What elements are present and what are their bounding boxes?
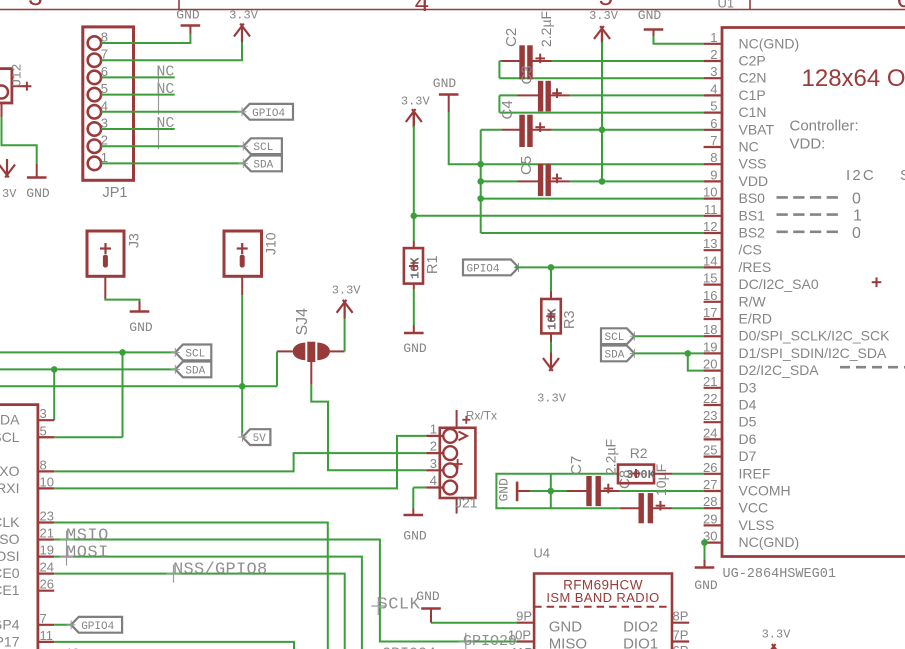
svg-text:MOSI: MOSI xyxy=(0,548,20,564)
svg-text:23: 23 xyxy=(703,408,717,423)
wire GND to rail xyxy=(449,112,481,164)
ground symbol (C7 cluster, rotated) xyxy=(516,482,519,502)
U1 pin 3 (C2N) xyxy=(704,77,722,79)
svg-text:NSS/GPIO8: NSS/GPIO8 xyxy=(173,560,268,579)
svg-text:GND: GND xyxy=(433,76,457,91)
svg-text:VDD: VDD xyxy=(739,173,769,189)
wire R2 to IREF xyxy=(672,473,704,475)
svg-text:2: 2 xyxy=(430,439,437,454)
svg-text:10: 10 xyxy=(703,185,717,200)
svg-text:VLSS: VLSS xyxy=(739,517,775,533)
svg-text:J10: J10 xyxy=(263,232,279,255)
net label MOSI xyxy=(66,548,68,566)
svg-text:2: 2 xyxy=(710,47,717,62)
wire SCL rail xyxy=(0,351,175,353)
svg-text:CE0: CE0 xyxy=(0,565,20,581)
svg-text:14: 14 xyxy=(703,253,717,268)
RPi pin 19 (MOSI) xyxy=(38,555,54,557)
RPi pin 3 (SDA) xyxy=(38,419,54,421)
wire C3 to C1P xyxy=(570,94,704,96)
RPi pin 5 (SCL) xyxy=(38,436,54,438)
U1 pin 26 (IREF) xyxy=(704,473,722,475)
connector J21 xyxy=(440,428,476,498)
wire RPi pin23 SCLK xyxy=(54,523,328,649)
svg-text:DIO1: DIO1 xyxy=(623,636,658,649)
wire JP1 pin8 to GND xyxy=(101,34,190,44)
svg-text:3: 3 xyxy=(430,456,437,471)
wire JP1 pin7 to 3.3V xyxy=(101,42,242,60)
wire C7 to VCOMH xyxy=(620,490,704,492)
U1 pin 12 (BS2) xyxy=(704,232,722,234)
wire 5V rail xyxy=(0,385,277,387)
U1 pin 25 (D7) xyxy=(704,456,722,458)
wire U4 9P to GND xyxy=(431,622,517,624)
U1 pin 13 (/CS) xyxy=(704,249,722,251)
junction D1/D2 xyxy=(685,350,692,357)
svg-text:GPIO4: GPIO4 xyxy=(252,108,285,120)
U1 pin 6 (VBAT) xyxy=(704,129,722,131)
svg-text:MISO: MISO xyxy=(549,636,587,649)
no-connect NC (JP1 pin3) xyxy=(158,117,160,149)
J21 pin 3 xyxy=(443,463,457,477)
svg-text:C7: C7 xyxy=(568,456,585,475)
svg-text:D5: D5 xyxy=(739,414,757,430)
net tag GPIO4 (middle) xyxy=(463,260,519,276)
net label MSIO xyxy=(66,531,68,549)
svg-text:R3: R3 xyxy=(562,310,578,329)
svg-text:DC/I2C_SA0: DC/I2C_SA0 xyxy=(739,276,819,292)
svg-text:0: 0 xyxy=(852,225,861,242)
svg-text:29: 29 xyxy=(703,511,717,526)
wire RPi pin8 TXO to J21 pin2 xyxy=(54,453,426,471)
ground symbol (U1 pin30) xyxy=(704,560,706,568)
net tag SDA (left) xyxy=(175,362,211,378)
svg-text:C5: C5 xyxy=(518,156,535,175)
svg-text:VDD:: VDD: xyxy=(790,136,826,153)
svg-text:3: 3 xyxy=(710,64,717,79)
svg-text:GPIO4: GPIO4 xyxy=(467,263,500,275)
svg-text:NC(GND): NC(GND) xyxy=(739,35,800,51)
svg-text:/CS: /CS xyxy=(739,242,762,258)
svg-text:C2P: C2P xyxy=(739,53,766,69)
svg-text:1: 1 xyxy=(430,421,437,436)
net label GPIO29 xyxy=(465,633,467,649)
svg-text:26: 26 xyxy=(703,460,717,475)
svg-text:CE1: CE1 xyxy=(0,582,20,598)
net tag GPIO4 (JP1) xyxy=(242,104,293,120)
capacitor C7 xyxy=(551,490,567,492)
U4 pin 8P (DIO2) xyxy=(672,622,689,624)
wire RPi pin21 MISO to RFM 10P xyxy=(54,540,517,642)
svg-text:6P: 6P xyxy=(673,643,689,649)
svg-text:BS2: BS2 xyxy=(739,225,766,241)
svg-text:SPI: SPI xyxy=(900,167,905,184)
RPi pin 10 (RXI) xyxy=(38,487,54,489)
U1 pin 2 (C2P) xyxy=(704,60,722,62)
U1 pin 14 (/RES) xyxy=(704,266,722,268)
U1 pin 17 (E/RD) xyxy=(704,318,722,320)
JP1 pin 2 xyxy=(88,140,101,153)
svg-text:3.3V: 3.3V xyxy=(537,392,567,406)
svg-text:12: 12 xyxy=(703,219,717,234)
supply 3.3V (cap bank) xyxy=(601,28,603,45)
net tag SDA (at U1) xyxy=(601,346,634,362)
svg-text:VCC: VCC xyxy=(739,500,769,516)
plus mark (DC/I2C_SA0 row) xyxy=(872,281,882,283)
wire J21 pin4 to GND xyxy=(413,487,426,489)
wire U1 pin30 to GND xyxy=(704,543,706,560)
capacitor C3 xyxy=(499,94,517,96)
svg-text:GPIO29: GPIO29 xyxy=(463,633,517,649)
svg-text:26: 26 xyxy=(40,577,54,592)
resistor R1 xyxy=(413,241,415,248)
svg-text:19: 19 xyxy=(40,543,54,558)
svg-text:8P: 8P xyxy=(673,609,689,624)
svg-text:15: 15 xyxy=(703,271,717,286)
svg-text:SDA: SDA xyxy=(0,412,20,428)
wire 3.3V to R1/BS1 xyxy=(413,111,415,126)
wire GND rail vertical xyxy=(480,130,482,233)
wire SCL to D0 xyxy=(634,335,703,337)
svg-text:10K: 10K xyxy=(546,308,560,330)
svg-text:GND: GND xyxy=(497,478,512,502)
svg-text:C2N: C2N xyxy=(739,70,767,86)
svg-text:Rx/Tx: Rx/Tx xyxy=(466,409,497,423)
ground symbol (U12) xyxy=(36,164,38,178)
RPi GPIO header outline (cut) xyxy=(0,405,38,649)
junction 5V/J10 xyxy=(239,383,246,390)
svg-text:5V: 5V xyxy=(253,433,267,445)
radio module U4 outline xyxy=(534,574,672,649)
svg-text:JP1: JP1 xyxy=(103,185,128,201)
wire C4 to VBAT xyxy=(552,129,704,131)
net tag SCL (left) xyxy=(175,345,211,361)
svg-text:D1/SPI_SDIN/I2C_SDA: D1/SPI_SDIN/I2C_SDA xyxy=(739,345,887,361)
svg-text:D7: D7 xyxy=(739,448,757,464)
ground symbol (J21) xyxy=(412,509,414,516)
svg-text:NC: NC xyxy=(739,139,759,155)
svg-text:4: 4 xyxy=(430,473,437,488)
RPi pin 23 (SCLK) xyxy=(38,521,54,523)
wire SCL to RPi pin5 xyxy=(122,352,124,437)
wire SJ4 left pad to 5V net xyxy=(277,350,293,352)
wire RPi pin5 SCL xyxy=(54,436,122,438)
U1 pin 19 (D1/SPI_SDIN/I2C_SDA) xyxy=(704,352,722,354)
wire SJ4 bottom pad to J21 pin3 xyxy=(310,362,312,385)
wire J3 to GND xyxy=(104,276,106,298)
svg-text:19: 19 xyxy=(703,339,717,354)
U1 pin 10 (BS0) xyxy=(704,198,722,200)
net label SCLK xyxy=(377,597,379,615)
U1 pin 5 (C1N) xyxy=(704,111,722,113)
svg-text:GND: GND xyxy=(176,7,200,22)
svg-text:16: 16 xyxy=(703,288,717,303)
svg-text:NC(GND): NC(GND) xyxy=(739,534,800,550)
svg-text:R/W: R/W xyxy=(739,293,767,309)
net tag GPIO4 (RPi pin7) xyxy=(71,617,122,633)
U1 pin 30 (NC(GND)) xyxy=(704,541,722,543)
U1 pin 9 (VDD) xyxy=(704,180,722,182)
svg-text:U4: U4 xyxy=(533,546,550,561)
svg-text:GND: GND xyxy=(403,529,427,544)
supply 3.3V (R1) xyxy=(413,111,415,128)
wire RPi pin19 MOSI xyxy=(54,557,362,649)
connector J3 xyxy=(87,231,124,276)
svg-text:22: 22 xyxy=(703,391,717,406)
RPi pin 24 (CE0) xyxy=(38,573,54,575)
U1 pin 15 (DC/I2C_SA0) xyxy=(704,284,722,286)
svg-text:GPIO4: GPIO4 xyxy=(81,621,114,633)
wire VSS to GND rail xyxy=(481,163,704,165)
svg-text:Controller:: Controller: xyxy=(790,118,859,135)
svg-text:SCL: SCL xyxy=(185,348,205,360)
wire R1 to GND xyxy=(413,289,415,325)
wire D1 to D2 xyxy=(688,353,704,370)
U4 pin 9P (GND) xyxy=(517,622,534,624)
capacitor C5 xyxy=(481,180,518,182)
wire 3.3V vertical xyxy=(601,28,603,42)
wire RPi pin10 RXI to J21 pin1 xyxy=(54,436,426,489)
svg-text:20: 20 xyxy=(703,357,717,372)
svg-text:8: 8 xyxy=(40,457,47,472)
D2 row dashes xyxy=(840,366,905,369)
junction 3.3V VBAT xyxy=(599,127,606,134)
JP1 pin 4 xyxy=(88,105,101,118)
junction SDA xyxy=(51,366,58,373)
wire RPi pin24 CE0/NSS xyxy=(54,574,345,649)
svg-text:11: 11 xyxy=(704,202,718,217)
svg-text:R2: R2 xyxy=(630,445,648,461)
junction rail BS0 xyxy=(477,195,484,202)
wire JP1 pin3 xyxy=(101,128,175,130)
svg-text:C4: C4 xyxy=(499,100,516,119)
svg-text:3: 3 xyxy=(40,406,47,421)
net label NSS/GPIO8 xyxy=(173,565,175,583)
svg-text:3.3V: 3.3V xyxy=(0,187,17,201)
svg-text:7: 7 xyxy=(710,133,717,148)
svg-text:SDA: SDA xyxy=(605,349,625,361)
wire JP1 pin2 to SCL xyxy=(101,145,243,147)
svg-text:4: 4 xyxy=(414,0,430,19)
svg-text:GP17: GP17 xyxy=(0,633,20,649)
wire R3 to 3.3V xyxy=(550,342,552,357)
junction U1 pin30 xyxy=(701,539,708,546)
svg-text:11: 11 xyxy=(40,628,54,643)
svg-text:9: 9 xyxy=(710,167,717,182)
supply 3.3V (R3, pointing down) xyxy=(550,353,552,370)
svg-text:DIO2: DIO2 xyxy=(623,619,658,636)
svg-text:17: 17 xyxy=(703,305,717,320)
svg-text:D6: D6 xyxy=(739,431,757,447)
svg-text:8: 8 xyxy=(710,150,717,165)
wire C1N loop xyxy=(498,95,500,112)
svg-text:VSS: VSS xyxy=(739,156,767,172)
svg-text:3.3V: 3.3V xyxy=(332,284,362,298)
svg-text:13: 13 xyxy=(703,236,717,251)
svg-text:J21: J21 xyxy=(455,495,478,511)
svg-text:SCLK: SCLK xyxy=(378,596,421,615)
svg-text:GND: GND xyxy=(638,8,662,23)
svg-text:UG-2864HSWEG01: UG-2864HSWEG01 xyxy=(723,567,836,582)
solder jumper SJ4 xyxy=(293,343,306,361)
svg-text:3: 3 xyxy=(28,0,44,13)
wire C8 to VCC xyxy=(672,507,704,509)
wire BS2 to GND rail xyxy=(481,232,704,234)
svg-text:SCLK: SCLK xyxy=(0,514,20,530)
junction SCL xyxy=(119,349,126,356)
svg-text:J3: J3 xyxy=(126,233,142,248)
U4 pin 10P (MISO) xyxy=(517,640,534,642)
J21 pin1 arrow marker xyxy=(459,432,468,441)
JP1 pin 7 xyxy=(88,54,101,67)
JP1 pin 6 xyxy=(88,71,101,84)
supply 3.3V arrow (left edge, pointing down) xyxy=(6,159,8,176)
svg-text:1: 1 xyxy=(710,30,717,45)
wire U1 pin1 to GND xyxy=(654,36,704,44)
svg-text:24: 24 xyxy=(40,560,54,575)
wire GPIO4 to /RES xyxy=(515,266,704,268)
connector JP1 xyxy=(83,27,134,180)
svg-text:SCL: SCL xyxy=(605,332,625,344)
wire C2 to C2P xyxy=(552,60,704,62)
junction GPIO4/R3 xyxy=(548,264,555,271)
svg-text:10: 10 xyxy=(40,474,54,489)
svg-text:3.3V: 3.3V xyxy=(229,8,259,22)
junction rail VSS xyxy=(477,161,484,168)
U1 pin 28 (VCC) xyxy=(704,507,722,509)
JP1 pin 8 xyxy=(88,36,101,49)
wire J10 to 5V xyxy=(241,276,243,295)
svg-text:23: 23 xyxy=(40,509,54,524)
wire JP1 pin4 to GPIO4 xyxy=(101,111,242,113)
resistor R2 xyxy=(618,465,654,484)
svg-text:3.3V: 3.3V xyxy=(762,628,792,642)
U1 pin 1 (NC(GND)) xyxy=(704,43,722,45)
U4 pin 7P (DIO1) xyxy=(672,640,689,642)
svg-text:I2C: I2C xyxy=(846,167,876,184)
junction GND (C7 cluster) xyxy=(548,488,555,495)
svg-text:2.2µF: 2.2µF xyxy=(538,11,554,47)
wire U12 to GND xyxy=(1,103,3,117)
wire JP1 pin1 to SDA xyxy=(101,162,243,164)
wire C5 to VDD xyxy=(570,180,704,182)
junction 3.3V VDD xyxy=(599,178,606,185)
svg-text:R1: R1 xyxy=(425,255,441,274)
wire JP1 pin5 xyxy=(101,94,175,96)
RPi pin 21 (MISO) xyxy=(38,538,54,540)
svg-text:4: 4 xyxy=(710,81,717,96)
svg-text:21: 21 xyxy=(40,526,54,541)
svg-text:SDA: SDA xyxy=(185,365,205,377)
wire GND loop to R2/C8 xyxy=(496,474,619,508)
svg-text:D2/I2C_SDA: D2/I2C_SDA xyxy=(739,362,820,378)
svg-text:BS0: BS0 xyxy=(739,190,766,206)
J21 pin 2 xyxy=(443,446,457,460)
svg-text:VBAT: VBAT xyxy=(739,121,775,137)
U1 pin 24 (D6) xyxy=(704,438,722,440)
svg-text:SDA: SDA xyxy=(253,159,273,171)
svg-text:5: 5 xyxy=(710,99,717,114)
net tag SCL (at U1) xyxy=(601,328,634,344)
svg-text:10µF: 10µF xyxy=(653,464,669,496)
wire SDA rail xyxy=(0,368,175,370)
U1 pin 27 (VCOMH) xyxy=(704,490,722,492)
U12 pad circle xyxy=(0,86,8,99)
svg-text:GND: GND xyxy=(26,186,50,201)
svg-text:7: 7 xyxy=(40,611,47,626)
JP1 pin 3 xyxy=(88,122,101,135)
svg-text:3.3V: 3.3V xyxy=(589,9,619,23)
capacitor C2 xyxy=(499,60,502,62)
svg-text:MISO: MISO xyxy=(0,531,20,547)
svg-text:28: 28 xyxy=(703,494,717,509)
svg-text:IREF: IREF xyxy=(739,465,771,481)
svg-text:6: 6 xyxy=(710,116,717,131)
svg-text:9P: 9P xyxy=(516,609,532,624)
svg-text:C1P: C1P xyxy=(739,87,766,103)
svg-text:GND: GND xyxy=(694,578,718,593)
BS2 setting dashes xyxy=(777,231,839,234)
junction BS1 xyxy=(411,213,418,220)
svg-text:GP4: GP4 xyxy=(0,616,20,632)
svg-text:2.2µF: 2.2µF xyxy=(603,439,619,475)
U4 dashed separator xyxy=(534,606,672,608)
U1 pin 11 (BS1) xyxy=(704,215,722,217)
svg-text:GPIO24: GPIO24 xyxy=(382,645,436,649)
RPi pin 7 (GP4) xyxy=(38,624,54,626)
svg-text:BS1: BS1 xyxy=(739,207,766,223)
svg-text:VCOMH: VCOMH xyxy=(739,483,791,499)
svg-text:6: 6 xyxy=(896,0,905,15)
svg-text:GND: GND xyxy=(549,619,583,636)
supply 3.3V (JP1 pin7) xyxy=(241,25,243,42)
svg-text:0: 0 xyxy=(852,190,861,207)
svg-text:10K: 10K xyxy=(409,257,423,279)
connector U12 (cut at left edge) xyxy=(0,69,12,103)
svg-text:RXI: RXI xyxy=(0,480,20,496)
U1 pin 7 (NC) xyxy=(704,146,722,148)
wire JP1 pin6 xyxy=(101,76,175,78)
U1 pin 8 (VSS) xyxy=(704,163,722,165)
svg-text:D3: D3 xyxy=(739,379,757,395)
net tag SDA (JP1) xyxy=(243,156,282,172)
svg-text:MOSI: MOSI xyxy=(66,543,109,562)
wire RPi pin7 GP4 xyxy=(54,624,71,626)
RPi pin 26 (CE1) xyxy=(38,590,54,592)
wire C2N loop xyxy=(498,61,500,78)
svg-text:300K: 300K xyxy=(626,468,656,482)
wire BS1 xyxy=(414,215,704,217)
RPi pin 11 (GP17) xyxy=(38,641,54,643)
svg-text:/RES: /RES xyxy=(739,259,772,275)
svg-text:3.3V: 3.3V xyxy=(401,95,431,109)
wire BS0 to GND rail xyxy=(481,198,704,200)
J21 pin 1 xyxy=(443,429,457,443)
svg-text:ISM BAND RADIO: ISM BAND RADIO xyxy=(546,590,659,605)
svg-text:1: 1 xyxy=(853,208,862,225)
svg-text:C3: C3 xyxy=(519,65,536,84)
svg-text:7P: 7P xyxy=(673,627,689,642)
connector J10 xyxy=(224,231,262,276)
svg-text:D4: D4 xyxy=(739,397,757,413)
svg-text:21: 21 xyxy=(703,374,717,389)
U1 pin 23 (D5) xyxy=(704,421,722,423)
U1 pin 16 (R/W) xyxy=(704,301,722,303)
U1 pin 20 (D2/I2C_SDA) xyxy=(704,370,722,372)
svg-text:25: 25 xyxy=(703,443,717,458)
svg-text:GND: GND xyxy=(129,320,153,335)
svg-text:C1N: C1N xyxy=(739,104,767,120)
